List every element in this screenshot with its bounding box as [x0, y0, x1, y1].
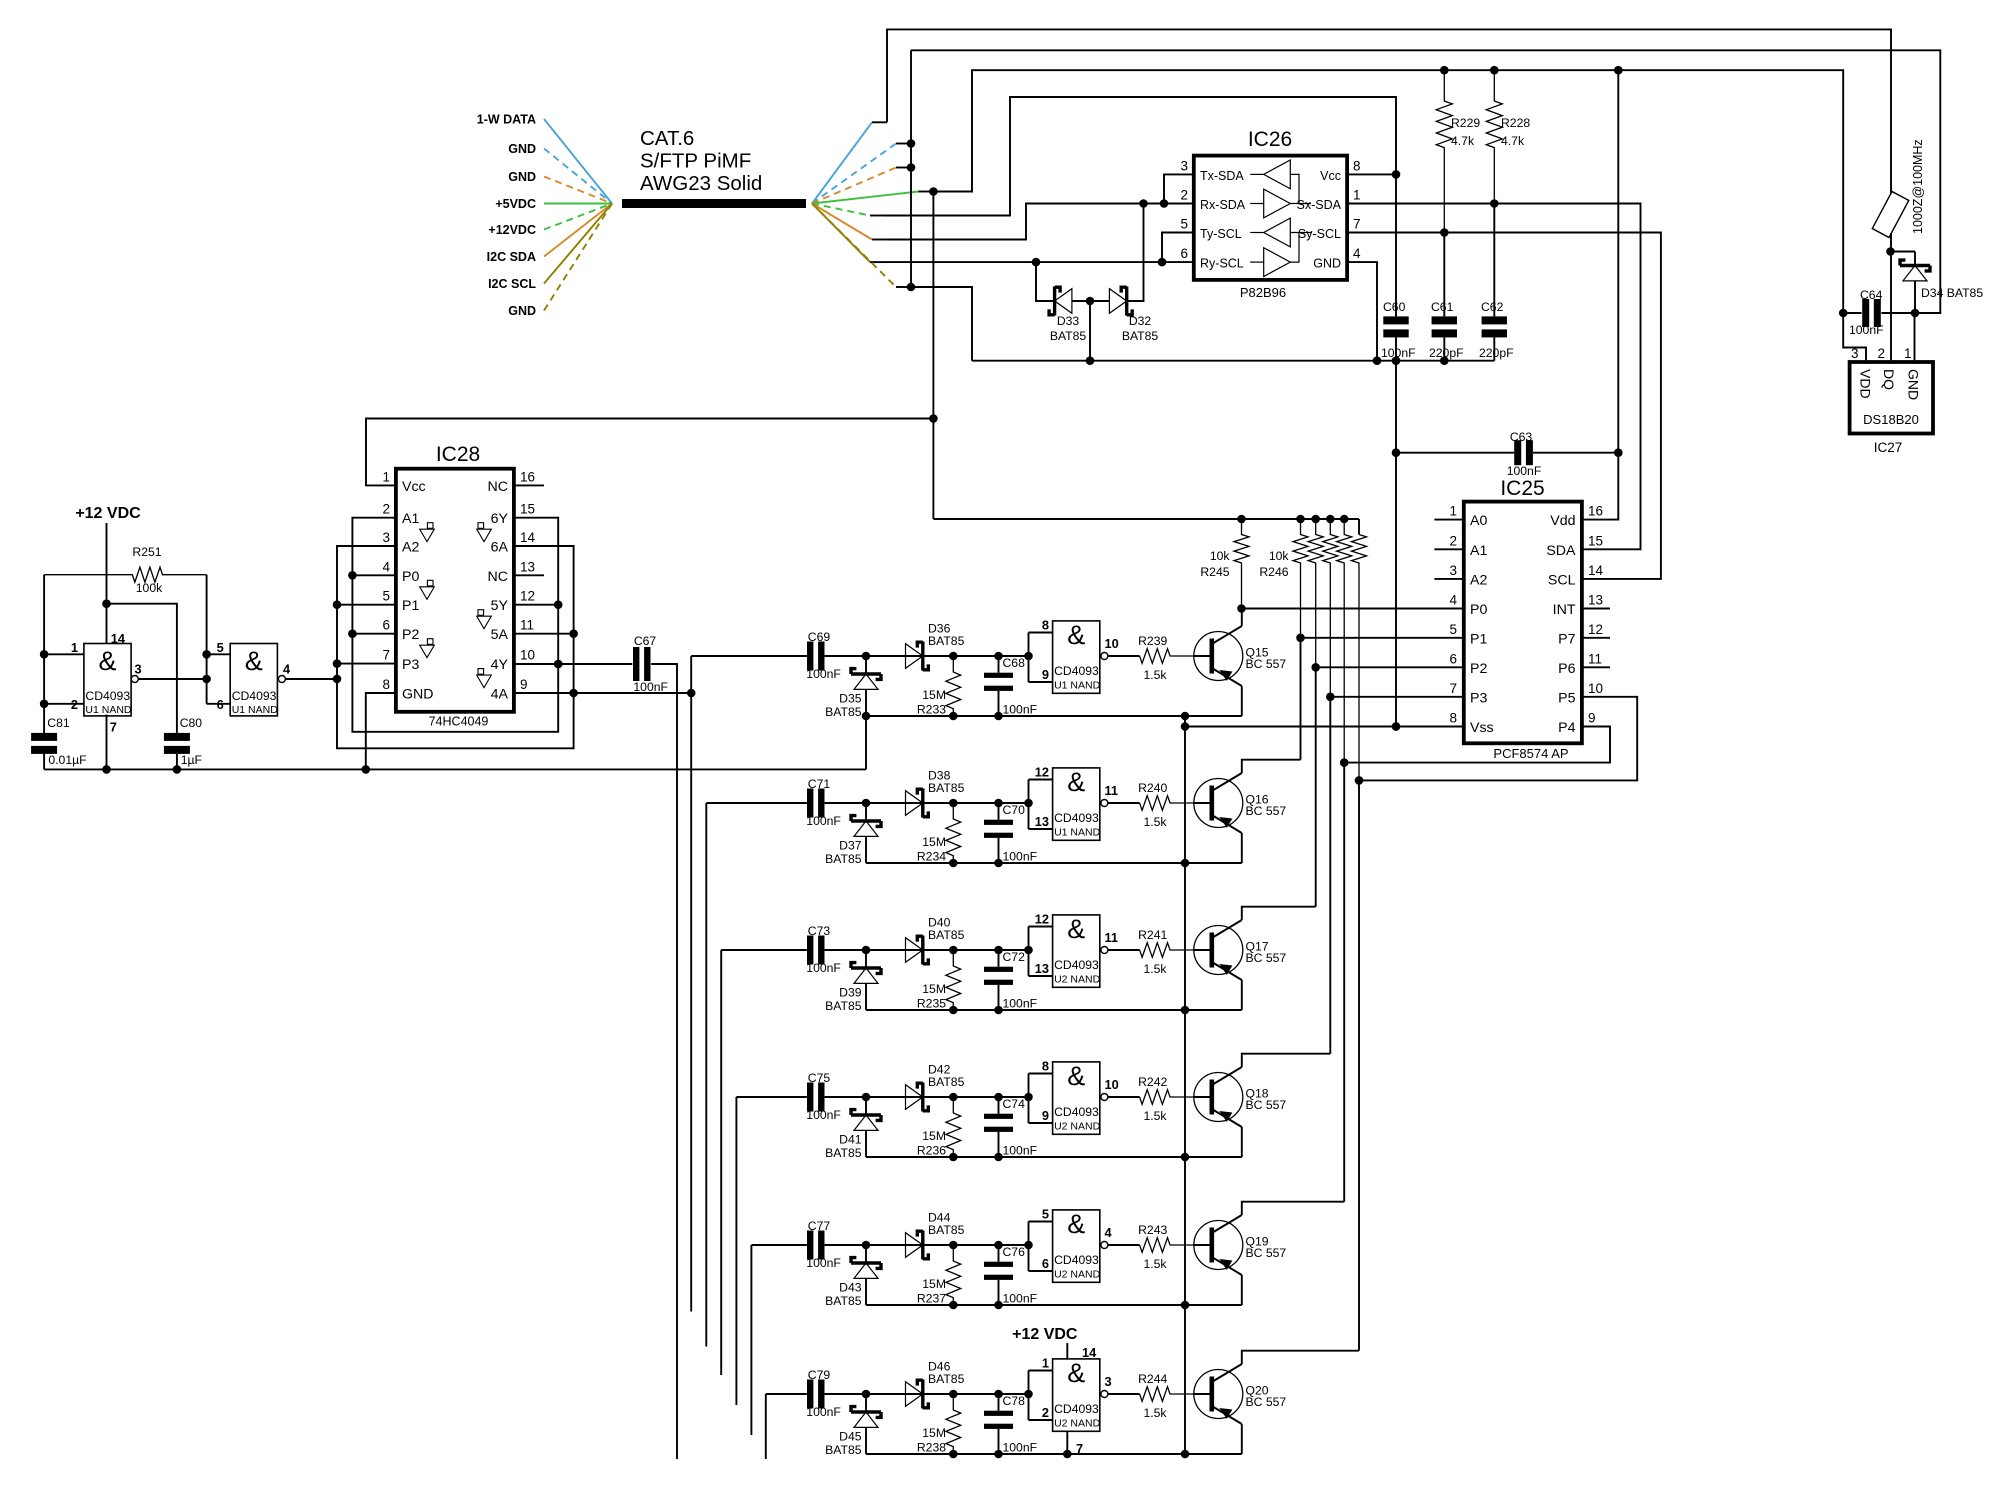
svg-text:8: 8	[382, 677, 390, 692]
svg-text:4.7k: 4.7k	[1501, 134, 1525, 148]
svg-text:CD4093: CD4093	[1054, 811, 1099, 825]
resistor R251 100k	[44, 545, 207, 595]
svg-text:C80: C80	[180, 716, 203, 730]
svg-text:100nF: 100nF	[806, 1256, 841, 1270]
wire P2 line	[1316, 666, 1464, 668]
svg-text:A0: A0	[1470, 513, 1487, 529]
svg-text:10k: 10k	[1269, 549, 1290, 563]
svg-text:1µF: 1µF	[181, 753, 202, 767]
svg-text:IC28: IC28	[436, 443, 480, 466]
svg-text:11: 11	[1588, 651, 1602, 666]
IC25 label P2	[1449, 651, 1487, 677]
IC26 pin 8	[1353, 158, 1361, 173]
wire IC28 pin12 stub	[514, 604, 558, 606]
resistor R245 10k	[1200, 519, 1249, 613]
svg-text:C71: C71	[808, 777, 831, 791]
wire I2C SDA to IC26 pin2	[887, 199, 1194, 239]
svg-text:P3: P3	[402, 657, 419, 673]
resistor R229 4.7k	[1436, 70, 1480, 237]
svg-text:2: 2	[1042, 1405, 1049, 1420]
svg-text:1000Z@100MHz: 1000Z@100MHz	[1911, 139, 1925, 234]
wire IC28 pin10 to C67	[514, 660, 632, 669]
capacitor C73 100nF	[806, 924, 841, 975]
svg-text:PCF8574 AP: PCF8574 AP	[1493, 746, 1568, 761]
svg-text:4: 4	[1105, 1225, 1113, 1240]
svg-text:R237: R237	[917, 1292, 946, 1306]
svg-text:P2: P2	[1470, 661, 1487, 677]
svg-text:8: 8	[1353, 158, 1361, 173]
wire IC25 A1 stub	[1434, 548, 1463, 550]
svg-text:BAT85: BAT85	[1050, 329, 1087, 343]
svg-text:P5: P5	[1558, 690, 1575, 706]
resistor R243 1.5k	[1138, 1223, 1194, 1271]
wire Q18 collector	[1242, 1054, 1331, 1067]
wire channel6 rail	[866, 1450, 1242, 1459]
svg-text:U2 NAND: U2 NAND	[1054, 1120, 1101, 1132]
svg-text:BC 557: BC 557	[1246, 1395, 1287, 1409]
svg-text:1.5k: 1.5k	[1143, 962, 1167, 976]
wire IC25 Vdd to +5V	[1582, 70, 1618, 519]
svg-text:BAT85: BAT85	[1122, 329, 1159, 343]
svg-text:D34 BAT85: D34 BAT85	[1921, 286, 1983, 300]
IC28 label A2	[382, 530, 419, 556]
IC25 label P1	[1449, 622, 1487, 648]
svg-text:3: 3	[1851, 346, 1859, 361]
wire channel6 input line	[766, 1393, 807, 1395]
svg-text:5A: 5A	[491, 627, 509, 643]
wire P1 bus	[1300, 638, 1302, 760]
diode D41 BAT85	[825, 1097, 881, 1160]
capacitor C80 1uF	[107, 604, 203, 774]
svg-text:BAT85: BAT85	[825, 705, 862, 719]
capacitor C63 100nF	[1396, 430, 1623, 478]
svg-text:BAT85: BAT85	[928, 781, 965, 795]
capacitor C60 100nF	[1381, 300, 1416, 360]
svg-text:14: 14	[1588, 563, 1604, 578]
wire sense electrode 4	[735, 1097, 737, 1405]
svg-text:15M: 15M	[922, 982, 946, 996]
wire cable fan-right	[812, 192, 933, 204]
svg-text:D39: D39	[839, 986, 862, 1000]
wire ground jog to ch1 rail	[865, 716, 867, 769]
svg-text:4: 4	[1449, 593, 1457, 608]
diode D40 BAT85	[906, 915, 965, 964]
svg-text:A2: A2	[402, 540, 419, 556]
IC26 label Ry-SCL	[1200, 257, 1244, 271]
svg-text:6Y: 6Y	[491, 511, 509, 527]
IC26 pin 4	[1353, 246, 1361, 261]
resistor R234 15M	[917, 803, 961, 864]
svg-text:1: 1	[382, 469, 390, 484]
gate CD4093 channel3	[1029, 912, 1140, 988]
wire cable fan-left +12VDC	[488, 204, 612, 238]
svg-text:BC 557: BC 557	[1246, 951, 1287, 965]
IC28 inverter	[477, 523, 492, 542]
svg-text:1: 1	[1042, 1356, 1049, 1371]
resistor R241 1.5k	[1138, 928, 1194, 976]
wire P5 bus	[1358, 780, 1360, 1350]
svg-text:GND: GND	[1313, 257, 1341, 271]
svg-text:U1 NAND: U1 NAND	[1054, 826, 1101, 838]
svg-text:4: 4	[283, 662, 291, 677]
svg-text:D43: D43	[839, 1281, 862, 1295]
wire IC25 P7 stub	[1582, 637, 1610, 639]
svg-text:DQ: DQ	[1881, 369, 1897, 390]
wire pull-up rail	[933, 515, 1359, 524]
wire cable fan-left I2C SCL	[488, 204, 612, 292]
svg-text:D41: D41	[839, 1133, 862, 1147]
resistor R242 1.5k	[1138, 1075, 1194, 1123]
wire Q15 collector	[1241, 609, 1243, 627]
capacitor C74 100nF	[984, 1097, 1037, 1158]
IC25 label Vdd	[1550, 504, 1603, 530]
svg-text:+12 VDC: +12 VDC	[75, 505, 141, 522]
svg-text:GND: GND	[508, 170, 536, 184]
svg-text:R246: R246	[1259, 565, 1288, 579]
svg-text:13: 13	[520, 559, 535, 574]
svg-text:BC 557: BC 557	[1246, 657, 1287, 671]
svg-text:R229: R229	[1451, 116, 1480, 130]
svg-text:P7: P7	[1558, 631, 1575, 647]
svg-text:C63: C63	[1510, 430, 1533, 444]
svg-text:CD4093: CD4093	[1054, 1105, 1099, 1119]
svg-text:6: 6	[1180, 246, 1188, 261]
svg-text:10: 10	[1105, 1077, 1119, 1092]
svg-text:BC 557: BC 557	[1246, 804, 1287, 818]
wire D33 branch	[1036, 262, 1055, 301]
IC26 label GND	[1313, 257, 1341, 271]
wire cable fan-right	[812, 204, 885, 263]
svg-text:11: 11	[520, 618, 534, 633]
svg-text:12: 12	[1588, 622, 1603, 637]
diode D39 BAT85	[825, 950, 881, 1013]
wire channel1 line	[825, 652, 1033, 661]
capacitor C70 100nF	[984, 803, 1037, 864]
svg-text:P1: P1	[1470, 631, 1487, 647]
svg-text:C79: C79	[808, 1368, 831, 1382]
svg-text:100nF: 100nF	[1849, 323, 1884, 337]
diode D44 BAT85	[906, 1210, 965, 1259]
wire DS18B20 GND pin	[1914, 313, 1916, 362]
svg-text:C68: C68	[1003, 656, 1026, 670]
wire cable fan-left GND	[508, 142, 612, 204]
IC25 label P4	[1558, 711, 1595, 737]
svg-text:4: 4	[1353, 246, 1361, 261]
IC25 label A0	[1449, 504, 1487, 530]
svg-text:12: 12	[1035, 912, 1049, 927]
wire Vcc decouple vertical	[1392, 174, 1401, 730]
capacitor C77 100nF	[806, 1219, 841, 1270]
resistor R237 15M	[917, 1245, 961, 1306]
svg-text:7: 7	[382, 648, 390, 663]
wire cable fan-left GND	[508, 204, 612, 319]
svg-text:U2 NAND: U2 NAND	[1054, 1417, 1101, 1429]
wire cable fan-left +5VDC	[495, 197, 612, 211]
svg-text:BAT85: BAT85	[825, 1146, 862, 1160]
svg-text:8: 8	[1449, 711, 1457, 726]
svg-text:6: 6	[1449, 651, 1457, 666]
svg-text:+12 VDC: +12 VDC	[1012, 1326, 1078, 1343]
IC28 label P0	[382, 559, 419, 585]
svg-text:7: 7	[1449, 681, 1457, 696]
svg-text:16: 16	[520, 469, 535, 484]
svg-text:BAT85: BAT85	[928, 1075, 965, 1089]
wire Q16 emitter	[1241, 833, 1243, 863]
capacitor C72 100nF	[984, 950, 1037, 1011]
svg-text:4.7k: 4.7k	[1451, 134, 1475, 148]
wire IC28 net A1/P0/P2 loop	[348, 518, 562, 732]
wire IC26 pin3 tie	[1164, 174, 1194, 203]
wire +12V osc vertical	[102, 523, 111, 644]
wire IC25 P6 stub	[1582, 666, 1610, 668]
IC26 label Ty-SCL	[1200, 227, 1242, 241]
gate CD4093 channel1	[1029, 618, 1140, 694]
svg-text:13: 13	[1035, 814, 1049, 829]
svg-text:BAT85: BAT85	[825, 999, 862, 1013]
svg-text:5: 5	[1042, 1207, 1049, 1222]
wire GND bus vertical	[1181, 712, 1190, 1459]
wire I2C SCL to IC26 pin6	[885, 258, 1194, 267]
IC25 label A1	[1449, 533, 1487, 559]
IC26 label Tx-SDA	[1200, 169, 1244, 183]
svg-text:P4: P4	[1558, 720, 1575, 736]
diode D38 BAT85	[906, 768, 965, 817]
wire IC28 pin8 GND	[362, 693, 396, 774]
wire Sx-SDA to IC25	[1347, 204, 1640, 550]
svg-text:C73: C73	[808, 924, 831, 938]
wire Q19 emitter	[1241, 1275, 1243, 1305]
capacitor C68 100nF	[984, 656, 1037, 717]
IC28 label P1	[382, 589, 419, 615]
wire channel5 input line	[751, 1244, 807, 1246]
wire channel4 rail	[866, 1153, 1242, 1162]
IC28 label A1	[382, 502, 419, 528]
svg-text:CD4093: CD4093	[85, 689, 130, 703]
svg-text:3: 3	[1449, 563, 1457, 578]
svg-text:AWG23 Solid: AWG23 Solid	[640, 172, 762, 195]
svg-text:Sx-SDA: Sx-SDA	[1297, 198, 1342, 212]
svg-text:74HC4049: 74HC4049	[429, 715, 489, 729]
svg-text:D33: D33	[1057, 314, 1080, 328]
IC28 label NC	[488, 559, 536, 585]
gate CD4093 channel6	[1029, 1356, 1140, 1432]
capacitor C71 100nF	[806, 777, 841, 828]
svg-text:6: 6	[1042, 1256, 1049, 1271]
capacitor C69 100nF	[806, 630, 841, 681]
wire channel1 input line	[691, 655, 807, 657]
transistor Q20 BC557	[1194, 1364, 1287, 1424]
wire channel2 rail	[866, 859, 1242, 868]
svg-text:VDD: VDD	[1858, 369, 1874, 399]
svg-text:1.5k: 1.5k	[1143, 815, 1167, 829]
IC28 label Vcc	[382, 469, 425, 495]
svg-text:16: 16	[1588, 504, 1603, 519]
svg-text:5: 5	[382, 589, 390, 604]
svg-text:2: 2	[1180, 188, 1188, 203]
svg-text:S/FTP PiMF: S/FTP PiMF	[640, 150, 751, 173]
svg-text:10k: 10k	[1210, 549, 1231, 563]
svg-text:C81: C81	[47, 716, 70, 730]
wire +12V net	[885, 97, 1396, 216]
IC26 label Sx-SDA	[1297, 198, 1342, 212]
IC28 inverter	[420, 523, 435, 542]
svg-text:1: 1	[1449, 504, 1457, 519]
svg-text:C76: C76	[1003, 1245, 1026, 1259]
svg-text:R236: R236	[917, 1144, 946, 1158]
svg-text:15M: 15M	[922, 688, 946, 702]
IC26 pin 1	[1353, 188, 1361, 203]
svg-text:8: 8	[1042, 618, 1049, 633]
svg-text:9: 9	[1588, 711, 1596, 726]
svg-text:CD4093: CD4093	[1054, 664, 1099, 678]
svg-text:100nF: 100nF	[1003, 1144, 1038, 1158]
IC28 label P3	[382, 648, 419, 674]
wire IC28 net A2/P1/P3 loop	[333, 546, 578, 748]
wire +5V vertical to pull-ups	[929, 192, 938, 520]
svg-text:CD4093: CD4093	[1054, 1253, 1099, 1267]
svg-text:&: &	[245, 646, 263, 676]
wire osc ground rail	[44, 765, 866, 774]
IC28 label 5Y	[491, 589, 535, 615]
svg-text:U2 NAND: U2 NAND	[1054, 1268, 1101, 1280]
IC25 label Vss	[1449, 711, 1493, 737]
diode D43 BAT85	[825, 1245, 881, 1308]
svg-text:R233: R233	[917, 703, 946, 717]
IC25 label P5	[1558, 681, 1603, 707]
svg-text:C61: C61	[1431, 300, 1454, 314]
transistor Q17 BC557	[1194, 920, 1287, 980]
svg-text:NC: NC	[488, 479, 509, 495]
IC25 label A2	[1449, 563, 1487, 589]
svg-text:11: 11	[1105, 930, 1119, 945]
cable CAT.6 bundle	[622, 127, 806, 204]
svg-text:100nF: 100nF	[806, 1405, 841, 1419]
svg-text:220pF: 220pF	[1429, 346, 1464, 360]
wire sense electrode 5	[750, 1245, 752, 1435]
svg-text:+12VDC: +12VDC	[488, 223, 536, 237]
wire IC25 A0 stub	[1434, 519, 1463, 521]
svg-text:U1 NAND: U1 NAND	[232, 704, 279, 716]
svg-text:10: 10	[1588, 681, 1603, 696]
capacitor C78 100nF	[984, 1394, 1037, 1455]
IC28 label 6Y	[491, 502, 535, 528]
svg-text:BAT85: BAT85	[928, 928, 965, 942]
wire drive electrode	[651, 664, 677, 1459]
svg-text:1: 1	[1353, 188, 1361, 203]
wire IC28 pin16 NC	[514, 484, 544, 486]
gate U1B CD4093	[207, 640, 337, 716]
svg-text:100nF: 100nF	[806, 667, 841, 681]
svg-text:100nF: 100nF	[806, 961, 841, 975]
wire channel4 input line	[736, 1096, 807, 1098]
wire cable fan-right	[812, 204, 887, 240]
svg-text:5: 5	[1449, 622, 1457, 637]
IC26 pin 3	[1180, 158, 1188, 173]
wire IC25 A2 stub	[1434, 578, 1463, 580]
wire cable fan-left I2C SDA	[487, 204, 612, 265]
IC26 buffer Tx	[1250, 0, 1290, 189]
svg-text:R245: R245	[1200, 565, 1229, 579]
svg-text:9: 9	[520, 677, 528, 692]
wire IC28 pin13 NC	[514, 574, 544, 576]
svg-text:12: 12	[1035, 765, 1049, 780]
svg-text:100nF: 100nF	[1381, 346, 1416, 360]
svg-text:100nF: 100nF	[633, 680, 668, 694]
wire IC26 pin8 Vcc	[1347, 170, 1400, 179]
wire Q17 collector	[1242, 907, 1316, 920]
svg-text:C69: C69	[808, 630, 831, 644]
IC26 label Vcc	[1320, 169, 1341, 183]
wire 1-W DATA net (top rail)	[887, 29, 1891, 196]
svg-text:15M: 15M	[922, 1129, 946, 1143]
svg-text:Vcc: Vcc	[1320, 169, 1341, 183]
svg-text:100nF: 100nF	[806, 1108, 841, 1122]
wire channel5 rail	[866, 1301, 1242, 1310]
wire R229 to C61	[1443, 233, 1445, 317]
svg-text:14: 14	[1082, 1345, 1097, 1360]
resistor R233 15M	[917, 656, 961, 717]
wire GND vertical bundle	[907, 50, 916, 291]
svg-text:&: &	[1067, 914, 1085, 944]
wire channel1 rail	[862, 712, 1242, 721]
wire GND top rail	[911, 50, 1940, 313]
svg-text:11: 11	[1105, 783, 1119, 798]
IC28 inverter	[477, 610, 492, 629]
svg-text:1.5k: 1.5k	[1143, 668, 1167, 682]
wire P0 line	[1242, 608, 1464, 610]
IC25 label P0	[1449, 593, 1487, 619]
wire channel4 line	[825, 1093, 1033, 1102]
svg-text:BC 557: BC 557	[1246, 1246, 1287, 1260]
IC26 box	[1194, 128, 1347, 300]
wire +5V net	[929, 66, 1847, 317]
IC28 inverter	[477, 669, 492, 688]
wire cable fan-left 1-W DATA	[477, 113, 612, 204]
svg-text:Rx-SDA: Rx-SDA	[1200, 198, 1246, 212]
svg-text:R243: R243	[1138, 1223, 1167, 1237]
resistor R246 10k bank	[1259, 519, 1366, 780]
wire IC25 P4 route	[1340, 727, 1610, 767]
svg-text:A2: A2	[1470, 572, 1487, 588]
IC26 pin 5	[1180, 217, 1188, 232]
wire cable fan-right	[812, 122, 887, 203]
capacitor C81 0.01uF	[31, 716, 86, 769]
svg-text:2: 2	[1877, 346, 1885, 361]
wire Sy-SCL to IC25	[1347, 233, 1661, 579]
svg-text:100nF: 100nF	[1003, 850, 1038, 864]
IC26 pin 2	[1180, 188, 1188, 203]
svg-text:&: &	[1067, 1209, 1085, 1239]
svg-text:DS18B20: DS18B20	[1863, 412, 1919, 427]
IC28 label 4Y	[491, 648, 535, 674]
IC28 label P2	[382, 618, 419, 644]
transistor Q18 BC557	[1194, 1067, 1287, 1127]
ferrite bead 1000Z@100MHz	[1872, 139, 1925, 237]
gate CD4093 channel5	[1029, 1207, 1140, 1283]
IC26 buffer Ty	[1250, 218, 1290, 247]
svg-text:&: &	[1067, 1061, 1085, 1091]
svg-text:6A: 6A	[491, 540, 509, 556]
svg-text:3: 3	[1105, 1374, 1112, 1389]
svg-text:CD4093: CD4093	[1054, 1402, 1099, 1416]
svg-text:R242: R242	[1138, 1075, 1167, 1089]
wire channel3 line	[825, 946, 1033, 955]
IC28 label 5A	[491, 618, 534, 644]
IC28 inverter	[420, 580, 435, 599]
svg-text:4A: 4A	[491, 687, 509, 703]
svg-text:GND: GND	[508, 142, 536, 156]
wire channel3 input line	[721, 949, 807, 951]
